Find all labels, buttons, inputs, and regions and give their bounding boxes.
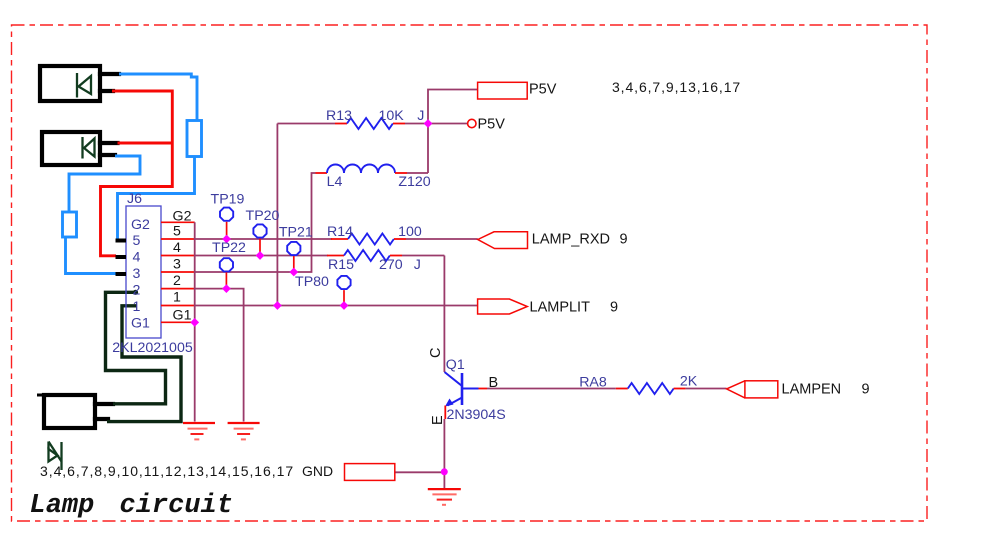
junction R13/LAMPLIT net (273, 301, 282, 310)
svg-text:3: 3 (133, 266, 141, 282)
svg-text:10K: 10K (379, 108, 405, 124)
label test points (211, 191, 330, 289)
resistor R15 (327, 250, 444, 261)
wire row5 net to R14 (195, 238, 332, 240)
svg-text:TP19: TP19 (211, 191, 245, 207)
wire dark-green J6 pin2 to lamp3 top (106, 292, 166, 404)
svg-text:TP21: TP21 (279, 225, 313, 241)
connector J6 body (126, 206, 161, 338)
junction TP80/LAMPLIT net (340, 301, 349, 310)
svg-text:P5V: P5V (529, 81, 557, 97)
svg-text:R14: R14 (327, 224, 353, 240)
wire red lamp1 bottom to J6 pin4 (101, 91, 173, 256)
svg-text:GND: GND (302, 463, 333, 479)
svg-text:LAMPEN: LAMPEN (782, 382, 842, 398)
svg-text:1: 1 (133, 299, 141, 315)
svg-text:2N3904S: 2N3904S (447, 407, 506, 423)
test point TP21 (287, 242, 300, 255)
test point TP19 (220, 208, 233, 221)
port LAMP_RXD flag (478, 232, 528, 249)
svg-text:2: 2 (173, 273, 181, 289)
transistor Q1 (445, 372, 479, 419)
port LAMPEN flag (727, 381, 778, 398)
svg-text:G2: G2 (173, 209, 192, 225)
label sheet pin lists (40, 79, 741, 479)
svg-text:TP20: TP20 (246, 208, 280, 224)
label port and net names (black) (428, 81, 870, 425)
svg-text:LAMPLIT: LAMPLIT (530, 300, 591, 316)
power flag P5V (478, 82, 528, 99)
svg-text:9: 9 (610, 300, 618, 316)
svg-text:2K: 2K (680, 374, 698, 390)
svg-text:J6: J6 (127, 191, 142, 207)
junction emitter/GND node (441, 468, 448, 475)
ground symbol 1 (183, 423, 215, 439)
svg-text:L4: L4 (327, 174, 343, 190)
wire row1 net LAMPLIT (195, 305, 478, 307)
wire blue lamp2 bottom to J6 pin3 (69, 156, 140, 212)
svg-text:270: 270 (379, 257, 403, 273)
svg-text:R15: R15 (328, 257, 354, 273)
lamp 3 (39, 395, 114, 428)
lamp 3 diode glyph (49, 442, 62, 471)
junction TP20/pin4 (256, 251, 265, 260)
port LAMPLIT flag (478, 299, 528, 314)
test point TP80 (337, 276, 350, 289)
resistor R14 (331, 234, 478, 245)
junction pin2 dot (133, 290, 138, 295)
lamp 2 diode glyph (83, 137, 95, 159)
connector J6 left black stubs (116, 241, 127, 275)
svg-text:Lamp circuit: Lamp circuit (30, 491, 233, 521)
port GND flag (345, 464, 395, 481)
wire GND flag link (395, 471, 445, 473)
wire G2-G1 ground net (194, 222, 196, 421)
connector J6 right pin stubs (red) (161, 222, 195, 322)
wire P5V port link (428, 123, 468, 125)
svg-text:G1: G1 (131, 316, 150, 332)
svg-text:2: 2 (133, 283, 141, 299)
svg-text:4: 4 (173, 240, 181, 256)
svg-text:G1: G1 (173, 307, 192, 323)
svg-text:1: 1 (173, 289, 181, 305)
svg-text:Z120: Z120 (398, 174, 430, 190)
svg-text:P5V: P5V (478, 116, 506, 132)
power port P5V circle (468, 119, 476, 127)
ground symbol 2 (228, 423, 260, 439)
wire blue lamp2 cont to pin3 (66, 237, 117, 274)
test point TP20 (253, 224, 266, 237)
svg-text:5: 5 (133, 233, 141, 249)
label J6 outside pin names (173, 209, 192, 324)
svg-text:E: E (430, 415, 446, 425)
svg-text:3: 3 (173, 256, 181, 272)
resistor (blue rect) in lamp1 wire (187, 121, 202, 157)
ground symbol 3 (428, 489, 461, 505)
svg-text:2KL2021005: 2KL2021005 (112, 340, 193, 356)
wire row2 net to ground (195, 289, 244, 422)
wire red lamp2 top joining (118, 142, 173, 145)
svg-text:5: 5 (173, 223, 181, 239)
svg-text:Q1: Q1 (446, 357, 465, 373)
lamp 1 diode glyph (77, 73, 91, 98)
wire dark-green J6 pin1 to lamp3 bottom (107, 306, 181, 422)
resistor RA8 (616, 383, 727, 394)
junction TP22/pin2 (222, 284, 231, 293)
svg-text:100: 100 (398, 224, 422, 240)
svg-text:9: 9 (620, 232, 628, 248)
wire emitter to ground (443, 419, 445, 489)
wire row4 net to R15 (195, 255, 328, 257)
wire R13 pullup vertical (276, 124, 278, 306)
svg-text:TP80: TP80 (295, 274, 329, 290)
lamp 2 (42, 132, 118, 165)
junction P5V node (424, 119, 433, 128)
test point TP22 (220, 258, 233, 271)
svg-text:4: 4 (133, 250, 141, 266)
svg-text:3,4,6,7,8,9,10,11,12,13,14,15,: 3,4,6,7,8,9,10,11,12,13,14,15,16,17 (40, 463, 294, 479)
svg-text:TP22: TP22 (212, 240, 246, 256)
lamp 1 (40, 66, 119, 101)
svg-text:J: J (417, 108, 424, 124)
wire blue lamp1 cont to pin5 (118, 157, 195, 240)
resistor (blue rect) in lamp2 wire (63, 212, 77, 237)
wire row3 net to L4 (195, 173, 316, 272)
svg-text:G2: G2 (131, 217, 150, 233)
wire base to RA8 (479, 388, 616, 390)
junction TP21/pin3 (289, 268, 298, 277)
resistor R13 (335, 118, 428, 129)
wire R13 row (277, 123, 335, 125)
svg-text:B: B (489, 375, 499, 391)
svg-text:3,4,6,7,9,13,16,17: 3,4,6,7,9,13,16,17 (612, 79, 741, 95)
label J6 (112, 191, 193, 356)
junction TP19/pin5 (222, 235, 231, 244)
svg-text:RA8: RA8 (579, 374, 607, 390)
svg-text:R13: R13 (326, 108, 352, 124)
wire collector riser (443, 256, 445, 373)
wire blue lamp1 top to J6 pin5 (119, 74, 197, 121)
svg-text:LAMP_RXD: LAMP_RXD (532, 232, 610, 248)
svg-text:C: C (428, 348, 444, 358)
inductor L4 (316, 124, 429, 174)
junction G1 (190, 318, 199, 327)
wire P5V riser (428, 90, 478, 124)
svg-text:J: J (414, 257, 421, 273)
svg-text:9: 9 (862, 382, 870, 398)
label component designators and values (326, 108, 698, 423)
